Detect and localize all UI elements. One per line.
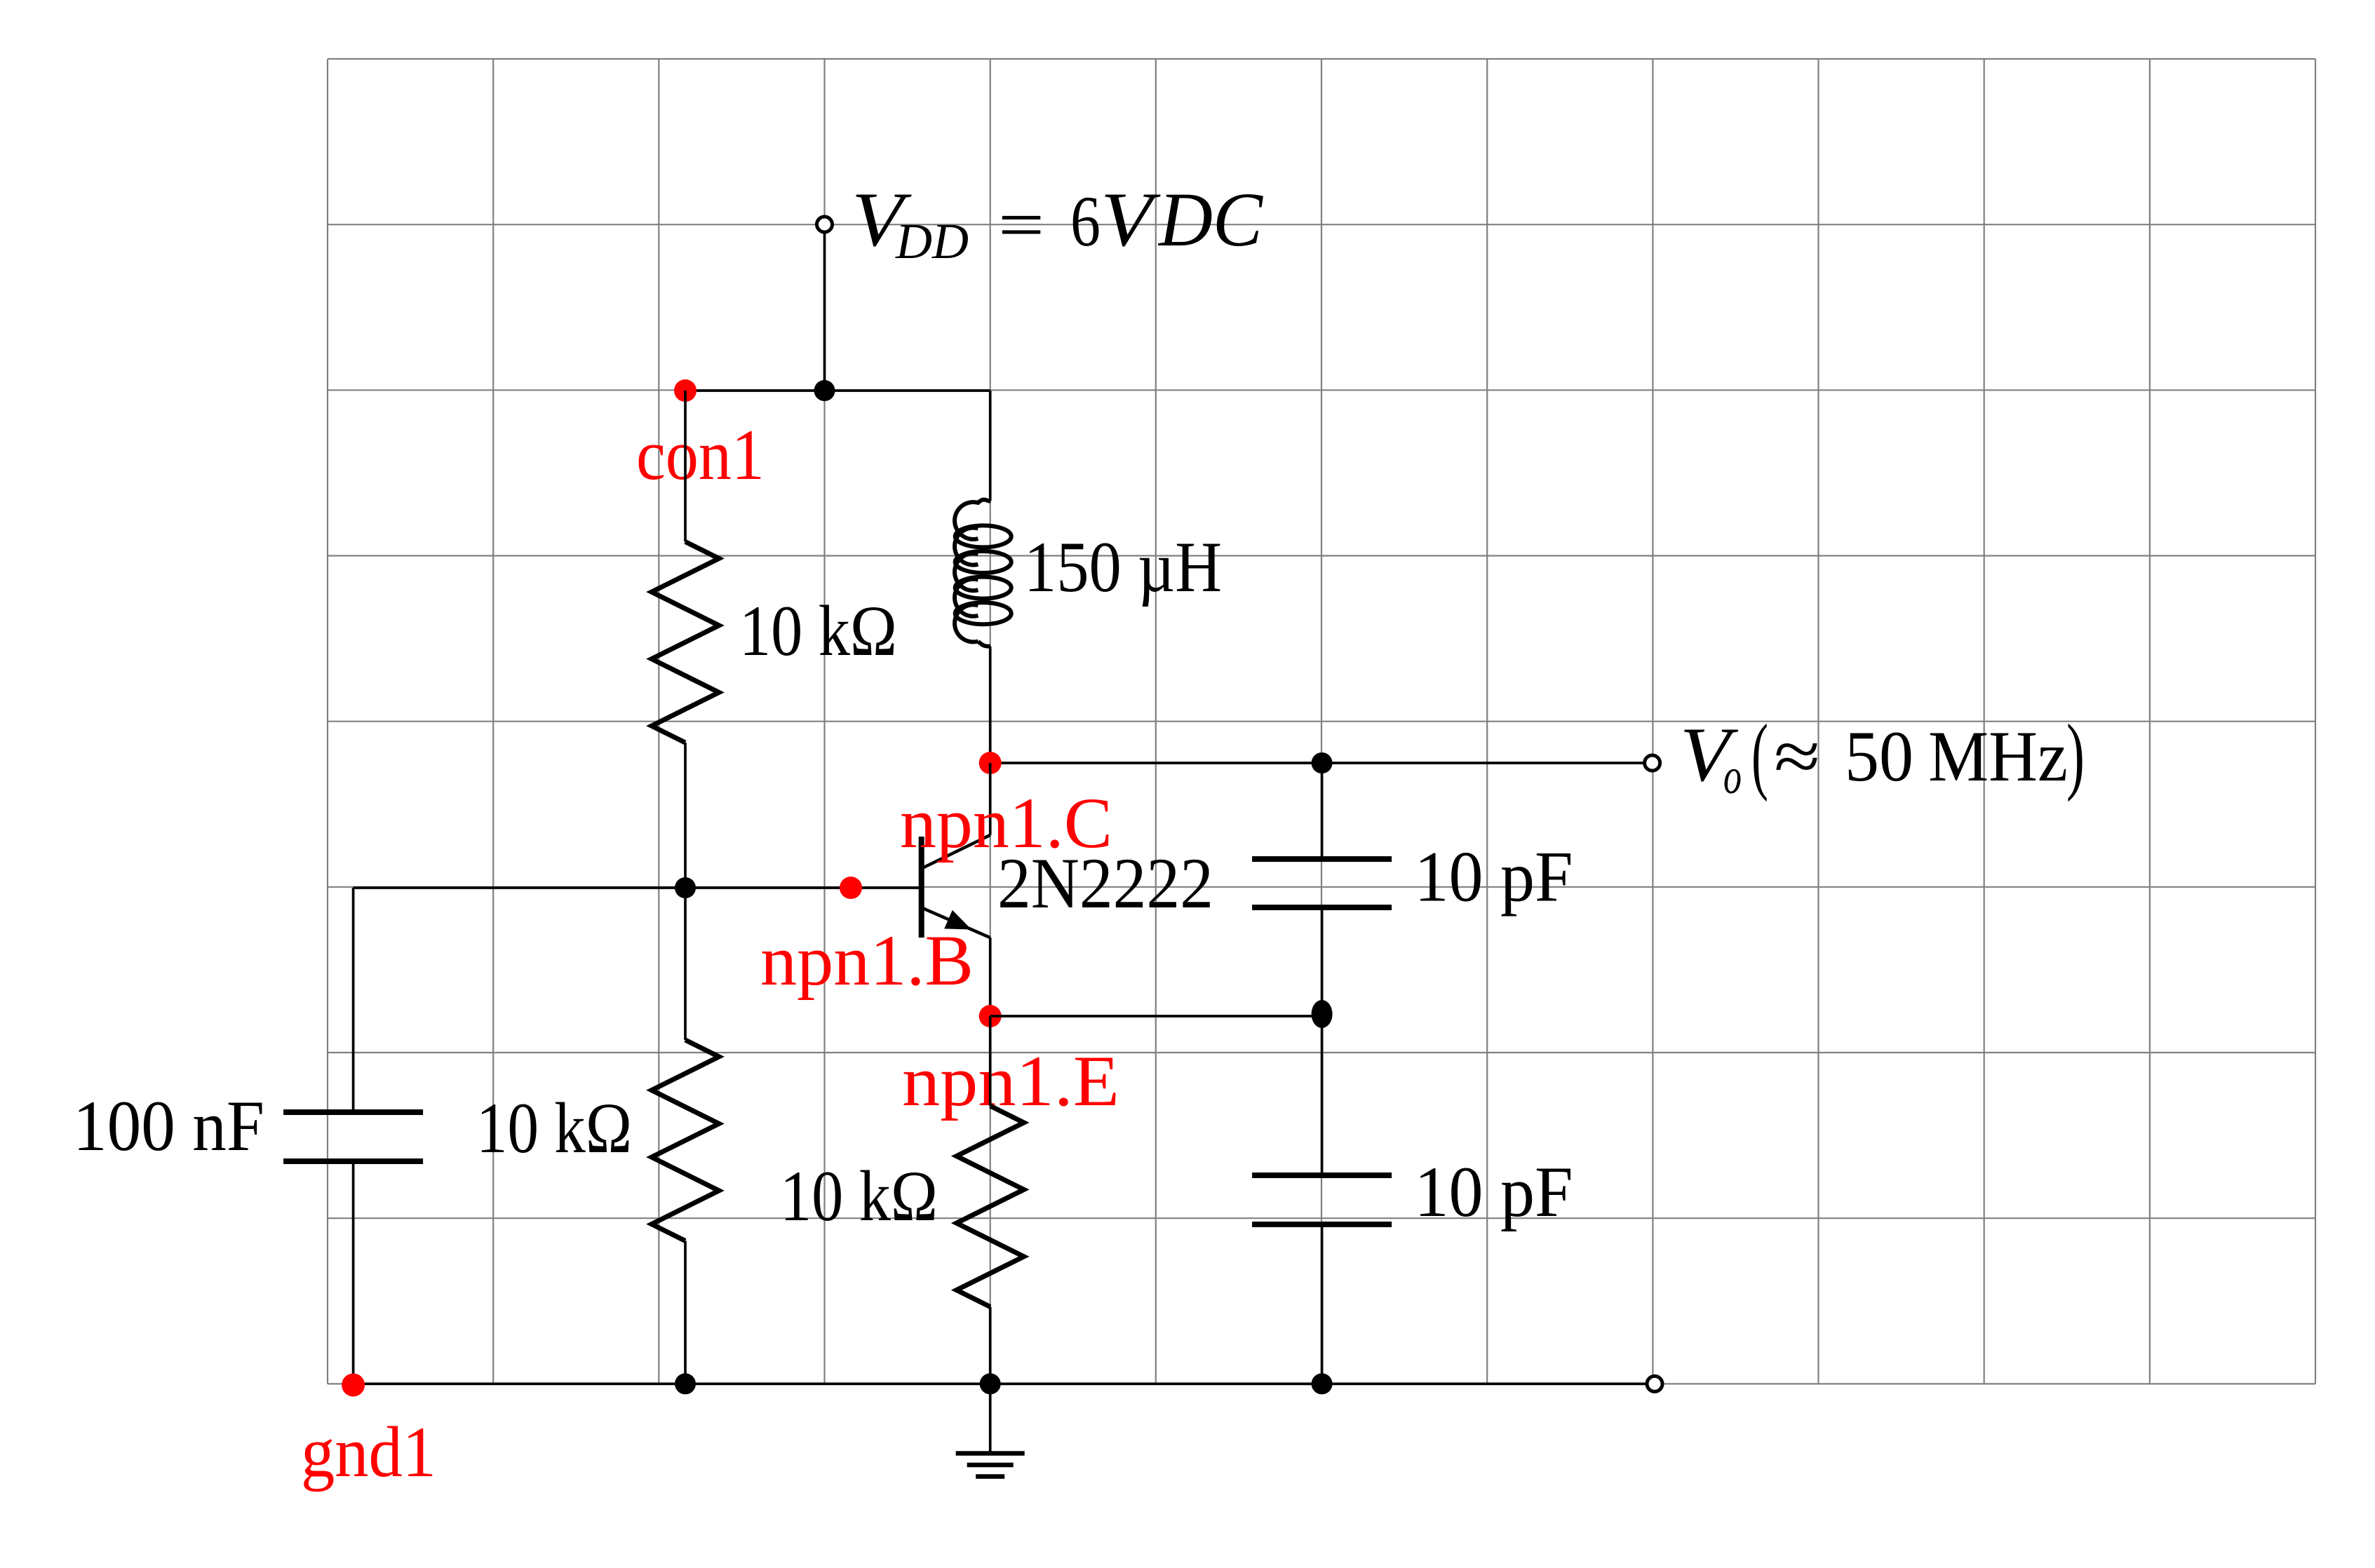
svg-text:10 kΩ: 10 kΩ bbox=[739, 591, 897, 671]
transistor collector diagonal bbox=[922, 835, 990, 869]
junction emitter rail / C1-C2 (oval) bbox=[1312, 1000, 1333, 1028]
wire base rail corner down to C3 bbox=[352, 888, 355, 1112]
wire base rail to R2 bbox=[684, 888, 687, 1040]
wire emitter junction to C2 bbox=[1321, 1014, 1324, 1175]
svg-text:con1: con1 bbox=[636, 415, 765, 495]
resistor R2 10k (lower bias) bbox=[652, 1040, 719, 1241]
capacitor C2 10pF bbox=[1252, 1172, 1392, 1178]
node npn1.C red dot bbox=[979, 752, 1002, 774]
junction top rail / VDD bbox=[814, 380, 835, 401]
junction ground / R2 bbox=[675, 1373, 696, 1394]
svg-text:): ) bbox=[2066, 706, 2085, 802]
svg-text:≈: ≈ bbox=[1774, 717, 1820, 797]
junction ground / R4 bbox=[980, 1373, 1001, 1394]
node npn1.B red dot bbox=[840, 877, 862, 899]
wire R1 to base rail bbox=[684, 743, 687, 888]
wire C1 to emitter junction bbox=[1321, 907, 1324, 1014]
node npn1.E red dot bbox=[979, 1005, 1002, 1027]
wire emitter down bbox=[989, 938, 992, 1016]
svg-text:DC: DC bbox=[1157, 177, 1264, 262]
transistor emitter diagonal bbox=[922, 907, 990, 938]
wire C2 to ground rail bbox=[1321, 1224, 1324, 1384]
svg-text:50: 50 bbox=[1845, 717, 1913, 797]
svg-text:10 kΩ: 10 kΩ bbox=[476, 1088, 632, 1168]
ground symbol bar 3 bbox=[976, 1474, 1004, 1479]
wire R4 to ground rail bbox=[989, 1307, 992, 1384]
node gnd1 red dot bbox=[342, 1374, 365, 1397]
junction ground / C2 bbox=[1312, 1373, 1333, 1394]
node con1 (red) bbox=[674, 379, 697, 402]
resistor R1 10k (upper bias) bbox=[652, 542, 719, 743]
svg-text:100 nF: 100 nF bbox=[73, 1086, 264, 1166]
svg-text:npn1.E: npn1.E bbox=[902, 1041, 1119, 1121]
junction output rail / C1 bbox=[1312, 752, 1333, 773]
svg-text:10 pF: 10 pF bbox=[1415, 1152, 1573, 1232]
svg-text:(: ( bbox=[1751, 706, 1768, 802]
resistor R4 10k (emitter) bbox=[957, 1106, 1024, 1307]
svg-text:npn1.C: npn1.C bbox=[900, 783, 1112, 863]
label VDD = 6VDC bbox=[852, 177, 1264, 269]
wire output node to C1 bbox=[1321, 763, 1324, 859]
output terminal Vo bbox=[1645, 755, 1660, 771]
svg-text:10 pF: 10 pF bbox=[1415, 837, 1573, 917]
wire R2 to ground rail bbox=[684, 1241, 687, 1384]
wire ground rail bbox=[354, 1383, 1646, 1386]
ground rail open terminal bbox=[1647, 1376, 1662, 1391]
ground symbol bar 2 bbox=[967, 1463, 1014, 1468]
ground symbol stub bbox=[989, 1384, 992, 1451]
wire VDD terminal to top rail bbox=[823, 232, 826, 391]
wire output rail bbox=[990, 762, 1644, 764]
svg-text:o: o bbox=[1723, 748, 1742, 804]
wire C3 to ground rail bbox=[352, 1161, 355, 1384]
label Vo (approx 50 MHz) bbox=[1680, 706, 2085, 804]
capacitor C1 10pF bbox=[1252, 856, 1392, 862]
transistor emitter arrow bbox=[944, 910, 971, 930]
capacitor C3 100nF bbox=[283, 1109, 423, 1115]
svg-text:V: V bbox=[1101, 177, 1161, 262]
svg-text:150 µH: 150 µH bbox=[1024, 527, 1222, 607]
svg-text:MHz: MHz bbox=[1928, 717, 2068, 797]
junction base rail / R1 bbox=[675, 877, 696, 898]
svg-text:npn1.B: npn1.B bbox=[760, 921, 974, 1001]
wire top rail to inductor bbox=[989, 391, 992, 501]
ground symbol bar 1 bbox=[956, 1451, 1025, 1456]
inductor L1 150uH bbox=[955, 499, 990, 647]
wire con1 to R1 bbox=[684, 391, 687, 542]
svg-text:=: = bbox=[998, 185, 1044, 265]
power terminal VDD bbox=[817, 217, 833, 232]
wire base rail bbox=[354, 886, 922, 889]
wire top rail con1 to inductor bbox=[685, 389, 990, 392]
wire collector bbox=[989, 763, 992, 835]
svg-text:gnd1: gnd1 bbox=[301, 1412, 436, 1492]
wire emitter to R4 bbox=[989, 1016, 992, 1106]
svg-text:DD: DD bbox=[895, 213, 969, 269]
wire inductor to output node bbox=[989, 647, 992, 763]
transistor Q1 base bar bbox=[919, 837, 924, 938]
svg-text:6: 6 bbox=[1070, 182, 1101, 262]
wire emitter rail bbox=[990, 1015, 1322, 1018]
svg-text:10 kΩ: 10 kΩ bbox=[780, 1156, 938, 1236]
